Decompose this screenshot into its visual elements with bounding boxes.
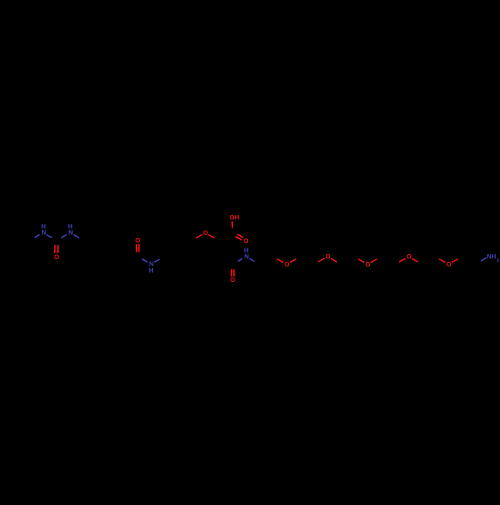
bond stub amide-1 N to carbonyl carbon: [142, 259, 147, 262]
bond stub ring O to C8a: [196, 235, 202, 238]
bond stub HO to acid carbon: [231, 221, 233, 228]
bond stub PEG O4 to left carbon: [399, 259, 405, 263]
amide-2 C=O double bond red half: [231, 269, 233, 276]
svg-text:O: O: [406, 254, 411, 261]
bond stub PEG O1 to left carbon: [277, 259, 283, 263]
bond stub ring O to C2: [208, 235, 214, 238]
bond stub amide-2 N to PEG carbon: [250, 259, 255, 262]
svg-text:N: N: [42, 230, 47, 237]
bond stub amide-2 N to carbonyl carbon: [238, 259, 242, 262]
urea C=O double bond red half: [54, 245, 56, 253]
bond stub amide-1 N to benzo ring carbon: [154, 259, 159, 262]
svg-text:O: O: [284, 262, 289, 269]
bond stub PEG O5 to right carbon: [452, 259, 458, 263]
svg-text:O: O: [54, 254, 59, 261]
bond stub N1 to urea carbonyl carbon: [47, 235, 52, 238]
svg-text:O: O: [203, 230, 208, 237]
svg-text:H: H: [68, 224, 73, 231]
svg-text:O: O: [243, 238, 248, 245]
bond stub PEG O4 to right carbon: [412, 259, 418, 263]
bond stub terminal carbon to amine N: [481, 258, 487, 261]
bond stub PEG O5 to left carbon: [439, 259, 445, 263]
bond stub N1 to ethyl carbon: [35, 235, 40, 238]
bond stub N2 to urea carbonyl carbon: [61, 235, 66, 238]
svg-text:N: N: [68, 230, 73, 237]
svg-text:O: O: [230, 277, 235, 284]
svg-text:O: O: [365, 262, 370, 269]
svg-text:H: H: [41, 224, 46, 231]
acid C=O double bond red half: [236, 237, 242, 241]
svg-text:H: H: [244, 247, 249, 254]
svg-text:N: N: [244, 254, 249, 261]
svg-text:OH: OH: [230, 214, 240, 221]
svg-text:O: O: [135, 238, 140, 245]
bond stub PEG O3 to left carbon: [358, 259, 364, 263]
bond stub PEG O1 to right carbon: [290, 259, 296, 263]
bond stub PEG O3 to right carbon: [371, 259, 377, 263]
svg-text:O: O: [325, 254, 330, 261]
svg-text:O: O: [446, 262, 451, 269]
amide-1 C=O double bond red half: [138, 244, 140, 252]
bond stub PEG O2 to right carbon: [331, 258, 337, 262]
svg-text:H: H: [149, 267, 154, 274]
bond stub N2 to phenylene chain carbon: [74, 235, 80, 238]
bond stub PEG O2 to left carbon: [318, 258, 324, 262]
